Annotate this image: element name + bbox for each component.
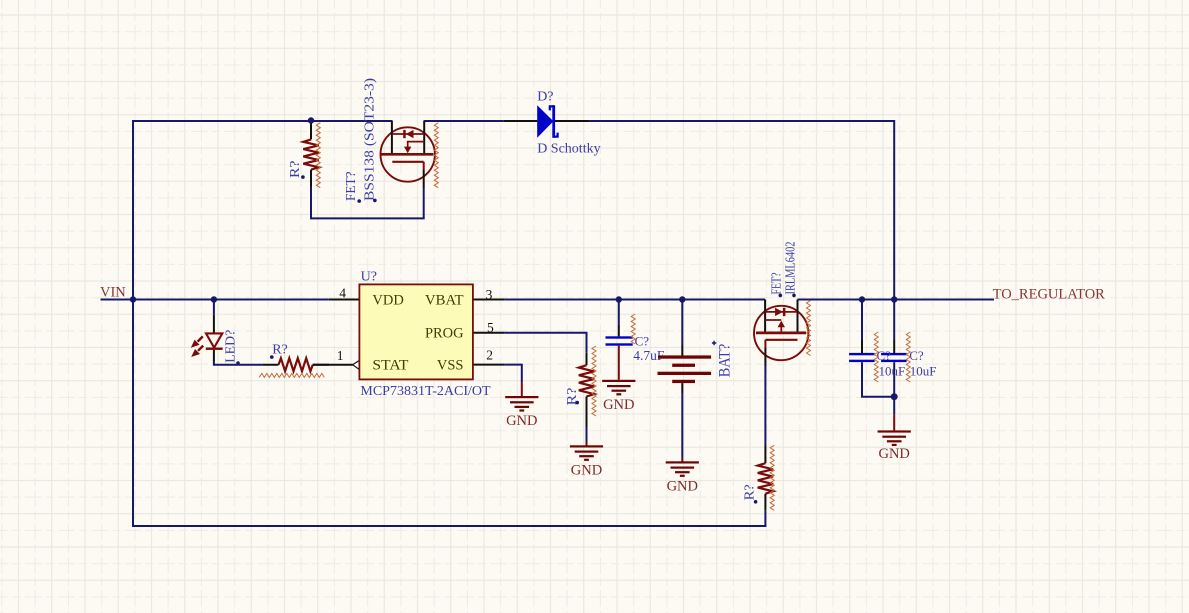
wire top rail left segment bbox=[133, 120, 392, 122]
wire battery top stub bbox=[681, 300, 683, 346]
svg-text:STAT: STAT bbox=[372, 358, 408, 374]
error squiggle under STAT resistor bbox=[259, 373, 324, 377]
node junction LED branch bbox=[211, 296, 217, 302]
wire VBAT net right to TO_REGULATOR bbox=[798, 299, 995, 301]
ground GND (output caps) bbox=[878, 430, 911, 432]
pin 4 VDD bbox=[329, 299, 360, 301]
wire left 10uF cap bottom link bbox=[862, 362, 894, 397]
resistor R? (STAT series) bbox=[262, 364, 278, 366]
svg-text:BAT?: BAT? bbox=[717, 344, 734, 378]
ground GND (PROG resistor) bbox=[570, 445, 603, 447]
pin 1 STAT with input arrow bbox=[313, 364, 353, 366]
wire R1 bottom link to FET1 gate bbox=[311, 186, 424, 218]
op-amp/IC U? MCP73831T-2ACI/OT body bbox=[359, 284, 473, 379]
wire left vertical VIN rail bbox=[132, 120, 134, 526]
pin 3 VBAT bbox=[473, 299, 505, 301]
node junction VIN/left rail bbox=[130, 296, 136, 302]
node junction battery bbox=[679, 296, 685, 302]
svg-text:U?: U? bbox=[361, 270, 377, 285]
wire right 10uF cap vertical bbox=[893, 300, 895, 341]
svg-text:PROG: PROG bbox=[425, 326, 464, 342]
svg-text:D?: D? bbox=[537, 90, 553, 105]
wire VSS pin2 to GND bbox=[505, 365, 522, 382]
wire PROG pin5 to resistor bbox=[505, 333, 587, 353]
svg-text:3: 3 bbox=[486, 287, 493, 302]
wire C1 top stub bbox=[618, 300, 620, 326]
svg-text:GND: GND bbox=[571, 462, 602, 478]
wire bottom rail bbox=[132, 525, 765, 527]
svg-text:BSS138 (SOT23-3): BSS138 (SOT23-3) bbox=[362, 78, 377, 201]
wire C1 bottom to GND bbox=[618, 346, 620, 380]
svg-text:R?: R? bbox=[742, 484, 757, 500]
svg-text:FET?: FET? bbox=[343, 171, 358, 201]
svg-text:R?: R? bbox=[272, 343, 288, 358]
wire PROG resistor to GND bbox=[586, 427, 588, 442]
error squiggle at left 10uF bbox=[874, 332, 878, 382]
resistor R? (PROG) bbox=[586, 352, 588, 365]
svg-text:IRLML6402: IRLML6402 bbox=[783, 242, 798, 295]
wire caps junction to GND bbox=[893, 397, 895, 415]
wire VIN horizontal bbox=[101, 299, 329, 301]
error squiggle at FET1 bbox=[434, 123, 438, 188]
ground GND (C1) bbox=[602, 380, 635, 382]
svg-text:MCP73831T-2ACI/OT: MCP73831T-2ACI/OT bbox=[360, 384, 491, 399]
wire top rail middle segment bbox=[424, 120, 504, 122]
error squiggle at right 10uF bbox=[906, 332, 910, 382]
svg-text:GND: GND bbox=[603, 397, 634, 413]
svg-text:4.7uF: 4.7uF bbox=[633, 348, 665, 363]
wire left 10uF cap top stub bbox=[861, 300, 863, 341]
svg-text:10uF: 10uF bbox=[910, 364, 937, 379]
resistor R? (pull-up at FET1) bbox=[310, 121, 312, 140]
svg-text:VDD: VDD bbox=[372, 293, 403, 309]
transistor FET? BSS138 (SOT23-3) P-MOSFET bbox=[381, 121, 435, 188]
svg-text:VBAT: VBAT bbox=[425, 293, 464, 309]
wire FET2 gate down to resistor bbox=[764, 365, 766, 446]
svg-text:10uF: 10uF bbox=[879, 364, 906, 379]
svg-text:GND: GND bbox=[506, 413, 537, 429]
svg-text:GND: GND bbox=[667, 478, 698, 494]
ground GND (IC VSS) bbox=[505, 396, 538, 398]
error squiggle at FET2 bbox=[807, 301, 811, 356]
wire LED bottom corner to STAT resistor bbox=[214, 361, 262, 365]
node junction R1 top bbox=[308, 117, 314, 123]
capacitor C? 4.7uF bbox=[618, 325, 620, 336]
ground GND (battery) bbox=[666, 461, 699, 463]
wire LED top stub bbox=[213, 300, 215, 315]
LED LED? bbox=[191, 315, 223, 361]
svg-text:C?: C? bbox=[877, 348, 892, 363]
error squiggle at PROG resistor bbox=[592, 346, 596, 416]
error squiggle at R? bbox=[316, 123, 320, 188]
pin 2 VSS bbox=[473, 364, 505, 366]
node junction caps to GND bbox=[891, 393, 898, 400]
pin 5 PROG bbox=[473, 332, 505, 334]
svg-text:VSS: VSS bbox=[437, 358, 464, 374]
node junction C1 bbox=[616, 296, 622, 302]
wire gate resistor to bottom rail bbox=[764, 511, 766, 527]
svg-text:R?: R? bbox=[287, 160, 302, 178]
node junction left 10uF bbox=[859, 296, 865, 302]
svg-text:5: 5 bbox=[487, 320, 494, 335]
svg-text:2: 2 bbox=[486, 347, 493, 362]
svg-text:D Schottky: D Schottky bbox=[537, 141, 600, 156]
node junction right 10uF bbox=[891, 296, 897, 302]
error squiggle at C1 bbox=[631, 314, 635, 344]
wire top rail right segment with corner down to VBAT net bbox=[589, 121, 895, 300]
svg-text:GND: GND bbox=[878, 446, 909, 462]
resistor R? (FET2 gate pull-down) bbox=[764, 446, 766, 464]
svg-text:1: 1 bbox=[337, 348, 344, 363]
capacitor C? 10uF (right) bbox=[893, 340, 895, 353]
svg-text:C?: C? bbox=[909, 348, 924, 363]
svg-text:VIN: VIN bbox=[100, 285, 126, 301]
wire battery bottom to GND bbox=[681, 393, 683, 458]
error squiggle at gate resistor bbox=[770, 445, 774, 510]
svg-text:FET?: FET? bbox=[769, 272, 784, 294]
svg-text:TO_REGULATOR: TO_REGULATOR bbox=[993, 286, 1106, 302]
svg-text:C?: C? bbox=[635, 333, 650, 348]
diode D? Schottky bbox=[504, 105, 589, 138]
transistor FET? IRLML6402 P-MOSFET bbox=[754, 300, 808, 366]
svg-text:4: 4 bbox=[339, 286, 346, 301]
svg-text:LED?: LED? bbox=[223, 330, 238, 363]
wire VBAT net middle bbox=[505, 299, 765, 301]
capacitor C? 10uF (left) bbox=[861, 340, 863, 353]
battery BAT? bbox=[658, 341, 717, 393]
